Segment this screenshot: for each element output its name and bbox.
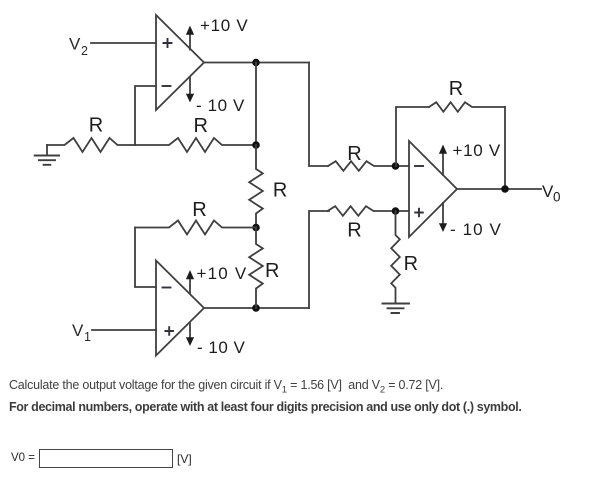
op-amp U3 minus marker xyxy=(415,165,423,167)
svg-text:- 10 V: - 10 V xyxy=(450,220,502,239)
wire V1 to U2 noninverting input xyxy=(92,329,156,331)
op-amp U3 xyxy=(409,141,457,237)
question line 2 bold xyxy=(9,400,521,414)
resistor R4 xyxy=(135,221,256,235)
node E junction xyxy=(392,162,400,170)
svg-text:0: 0 xyxy=(553,190,561,205)
node B junction xyxy=(252,141,260,149)
svg-text:- 10 V: - 10 V xyxy=(197,338,246,357)
node G junction xyxy=(501,185,509,193)
svg-text:V: V xyxy=(72,321,84,340)
node F junction xyxy=(392,207,400,215)
wire V2 to U1 noninverting input xyxy=(91,42,156,44)
question line 1 xyxy=(9,378,443,396)
wire feedback left xyxy=(396,107,429,166)
op-amp U1 minus marker xyxy=(163,85,171,87)
wire node A to R6 xyxy=(309,63,328,167)
op-amp U1 plus marker xyxy=(164,39,172,47)
resistor R9 to ground xyxy=(391,211,400,304)
svg-text:R: R xyxy=(347,220,361,242)
wire node A to node B xyxy=(255,63,257,146)
wire U2 inverting input xyxy=(135,228,156,288)
op-amp U3 plus marker xyxy=(415,209,423,217)
svg-text:V: V xyxy=(69,35,81,54)
answer label V0 = xyxy=(11,452,35,464)
svg-text:R: R xyxy=(347,143,361,165)
ground G1 xyxy=(35,145,59,165)
-10 V supply arrow U3 xyxy=(439,203,447,232)
resistor R2 xyxy=(135,138,256,152)
op-amp U1 xyxy=(156,15,204,110)
svg-text:R: R xyxy=(194,115,208,137)
wire U1 output xyxy=(204,62,309,64)
unit label [V] xyxy=(177,452,192,466)
op-amp U2 minus marker xyxy=(163,287,171,289)
svg-text:+10 V: +10 V xyxy=(453,141,501,160)
svg-text:+10 V: +10 V xyxy=(200,16,248,35)
svg-text:2: 2 xyxy=(81,44,88,58)
resistor R7 xyxy=(328,206,410,216)
-10 V supply arrow U1 xyxy=(186,77,194,103)
node C junction xyxy=(252,224,260,232)
node Vo label xyxy=(542,182,561,205)
wire node D to R7 xyxy=(309,211,329,308)
wire U1 inverting input xyxy=(135,86,156,145)
-10 V supply arrow U2 xyxy=(186,324,194,347)
resistor R1 xyxy=(47,138,135,152)
resistor R6 xyxy=(328,161,409,171)
resistor R8 feedback xyxy=(429,102,505,112)
svg-text:+10 V: +10 V xyxy=(197,264,248,283)
+10 V supply arrow U3 xyxy=(439,145,447,176)
svg-text:R: R xyxy=(265,260,279,282)
wire U2 output xyxy=(204,307,309,309)
op-amp U2 plus marker xyxy=(165,327,173,335)
+10 V supply arrow U2 xyxy=(186,270,194,293)
node A junction xyxy=(252,59,260,67)
node V2 label xyxy=(69,35,88,59)
svg-text:- 10 V: - 10 V xyxy=(196,96,245,115)
op-amp U2 xyxy=(156,261,204,356)
node V1 label xyxy=(72,321,91,344)
wire U3 output xyxy=(457,188,541,190)
resistor R3 vertical xyxy=(249,145,263,228)
answer input box xyxy=(39,449,173,468)
svg-text:1: 1 xyxy=(84,330,91,344)
wire feedback right xyxy=(504,107,506,189)
+10 V supply arrow U1 xyxy=(186,26,194,50)
node D junction xyxy=(252,304,260,312)
resistor R5 vertical xyxy=(249,228,263,309)
svg-text:R: R xyxy=(404,253,418,275)
svg-text:R: R xyxy=(192,199,206,221)
svg-text:R: R xyxy=(89,115,103,137)
ground G2 xyxy=(383,304,410,314)
svg-text:R: R xyxy=(449,78,463,100)
svg-text:R: R xyxy=(273,179,287,201)
